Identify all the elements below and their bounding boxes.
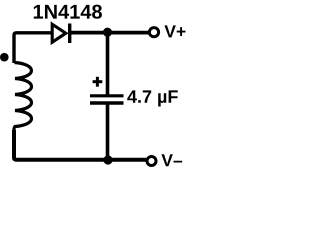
wire: top-left from inductor top to diode anode [14, 33, 52, 63]
capacitor polarity + sign [93, 77, 103, 87]
label V- [161, 154, 182, 166]
label 1N4148 [34, 5, 102, 19]
label V+ [164, 25, 185, 37]
inductor L1 [14, 63, 32, 133]
terminal V- circle [147, 157, 156, 166]
wire: diode cathode to top junction and on to V+ terminal [69, 31, 149, 35]
node: top junction dot [103, 28, 112, 37]
node: bottom junction dot [103, 155, 112, 164]
wire: capacitor bottom plate down to bottom junction [106, 103, 110, 160]
label 4.7 uF [127, 90, 177, 106]
wire: bottom rail from inductor bottom to V- terminal [14, 130, 146, 160]
capacitor C1 plates [90, 96, 124, 103]
inductor phasing dot [0, 53, 9, 62]
wire: top junction down to capacitor top plate [106, 33, 110, 95]
terminal V+ circle [149, 28, 158, 37]
diode D1 1N4148 [52, 24, 69, 44]
